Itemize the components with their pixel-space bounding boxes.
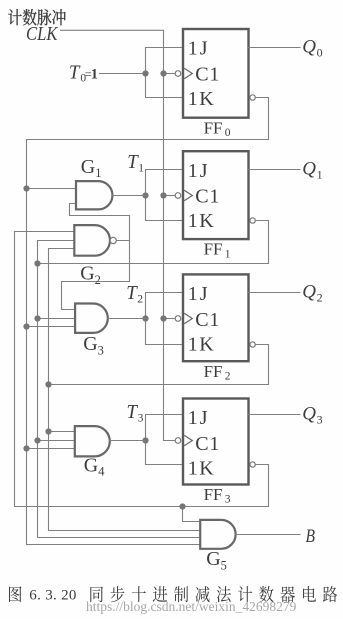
svg-text:0: 0 <box>317 46 323 60</box>
wire G4 bottom input from Q-bar0 bus <box>27 448 75 450</box>
svg-text:3: 3 <box>317 413 323 427</box>
label FF3 <box>204 485 231 506</box>
svg-text:Q: Q <box>302 403 316 424</box>
label FF1 <box>204 240 231 261</box>
svg-text:T: T <box>69 62 81 83</box>
wire J-K tie bracket of FF0 <box>146 48 184 98</box>
AND gate G3 <box>75 304 108 333</box>
junction dot Q-bar3 tap <box>179 503 185 509</box>
svg-text:1K: 1K <box>188 333 215 355</box>
svg-text:5: 5 <box>221 558 227 572</box>
flip-flop FF2 (JK) <box>175 274 248 361</box>
junction dot at FF3 J-K node <box>142 437 148 443</box>
clock bubble at C1 of FF3 <box>175 438 181 444</box>
wire G4 output to T3 node <box>110 440 146 442</box>
wire G3 output to T2 node <box>108 318 146 320</box>
svg-text:G: G <box>80 263 94 285</box>
svg-text:G: G <box>84 454 98 476</box>
wire Q-bar2 feedback: around FF2 to left bus <box>49 345 269 385</box>
flip-flop FF3 (JK) <box>175 399 248 485</box>
node T3 label <box>127 402 144 425</box>
wire G5 output to borrow B <box>236 534 300 536</box>
svg-text:1J: 1J <box>188 407 210 429</box>
flip-flop FF1 (JK) <box>175 151 248 239</box>
svg-text:T: T <box>126 283 138 304</box>
label: counting pulse (Chinese) <box>8 9 66 25</box>
label G5 <box>206 548 227 572</box>
junction dot at FF2 J-K node <box>142 315 148 321</box>
svg-text:3: 3 <box>138 413 144 425</box>
svg-text:3: 3 <box>98 343 104 357</box>
svg-text:0: 0 <box>225 127 231 139</box>
junction dot clock rail at FF2 <box>160 315 166 321</box>
label Q0 <box>302 36 322 59</box>
svg-text:1: 1 <box>138 163 144 175</box>
node CLK label <box>26 23 59 45</box>
clock bubble at C1 of FF1 <box>175 193 181 199</box>
wire Q-bar1 feedback: around FF1 to left bus <box>38 221 269 264</box>
svg-text:G: G <box>206 548 220 570</box>
watermark <box>86 599 297 614</box>
svg-text:CLK: CLK <box>26 23 59 45</box>
inverted output bubble (Q-bar) of FF3 <box>250 462 255 467</box>
wire clock tap to C1 of FF0 <box>164 73 176 75</box>
wire G3 bottom input from Q-bar0 bus <box>27 326 76 328</box>
wire J-K tie bracket of FF1 <box>146 170 184 221</box>
svg-text:4: 4 <box>98 465 105 479</box>
dynamic-input triangle at C1 of FF1 <box>184 190 192 200</box>
svg-text:FF: FF <box>204 240 223 259</box>
junction dot Q-bar0 bus to G4 <box>23 445 29 451</box>
junction dot Q-bar1 bus to G3 <box>34 315 40 321</box>
junction dot clock rail at FF0 <box>160 70 166 76</box>
wire Q3 output <box>249 414 301 416</box>
clock bubble at C1 of FF0 <box>175 71 181 77</box>
inverted output bubble (Q-bar) of FF1 <box>250 218 255 223</box>
dynamic-input triangle at C1 of FF0 <box>184 68 192 78</box>
wire G2 output net: up to G1 lower input and down to G3 upper input <box>62 204 130 310</box>
clock bubble at C1 of FF2 <box>175 316 181 322</box>
svg-text:T: T <box>127 152 139 173</box>
label B (borrow output) <box>306 527 316 547</box>
svg-text:1: 1 <box>225 248 231 260</box>
label Q1 <box>302 158 322 181</box>
svg-text:G: G <box>83 333 97 355</box>
wire G4 top input from Q-bar2 bus <box>49 431 75 433</box>
junction dot at FF1 J-K node <box>142 192 148 198</box>
label G3 <box>83 333 104 357</box>
wire J-K tie bracket of FF3 <box>146 415 184 465</box>
wire Q0 output <box>249 47 301 49</box>
label FF0 <box>204 118 231 139</box>
svg-text:1J: 1J <box>188 160 210 182</box>
wire T0 input to FF0 J-K node <box>100 73 146 75</box>
wire Q-bar3 tap down to G5 top input <box>183 507 201 522</box>
svg-text:1: 1 <box>91 66 98 82</box>
wire J-K tie bracket of FF2 <box>146 293 184 345</box>
wire clock tap to C1 of FF2 <box>164 318 176 320</box>
AND gate G5 <box>200 520 235 549</box>
output bubble of G2 <box>110 237 116 243</box>
wire G1 output to T1 node <box>113 195 146 197</box>
svg-text:Q: Q <box>302 158 316 179</box>
junction dot Q-bar1 bus to G4 <box>34 437 40 443</box>
svg-text:C1: C1 <box>195 63 220 85</box>
NAND gate G2 <box>74 225 116 256</box>
dynamic-input triangle at C1 of FF2 <box>184 313 192 323</box>
svg-text:FF: FF <box>204 118 223 137</box>
junction dot Q-bar2 bus to G4 <box>45 428 51 434</box>
svg-text:1: 1 <box>317 168 323 182</box>
junction dot Q-bar1 wrap joins bus <box>34 260 40 266</box>
node T2 label <box>126 283 143 306</box>
dynamic-input triangle at C1 of FF3 <box>184 435 192 445</box>
svg-text:Q: Q <box>302 36 316 57</box>
junction dot Q-bar0 bus to G1 <box>23 185 29 191</box>
AND gate G4 <box>75 426 110 456</box>
svg-text:FF: FF <box>204 485 223 504</box>
label T0=1 <box>69 62 98 84</box>
wire G3 middle input from Q-bar1 bus <box>38 318 76 320</box>
svg-text:2: 2 <box>225 370 231 382</box>
caption: figure number <box>9 586 77 603</box>
wire G1 top input from Q-bar0 bus <box>27 188 77 190</box>
svg-text:C1: C1 <box>195 433 220 455</box>
AND gate G1 <box>76 181 112 209</box>
svg-text:6. 3. 20: 6. 3. 20 <box>29 588 76 604</box>
label Q3 <box>302 403 322 426</box>
junction dot at FF0 J-K node <box>142 70 148 76</box>
wire Q2 output <box>249 292 301 294</box>
label Q2 <box>302 281 322 304</box>
wire Q-bar2 bus: to G2 input and down to G5 <box>49 249 201 531</box>
inverted output bubble (Q-bar) of FF0 <box>250 95 255 100</box>
label G1 <box>81 156 102 180</box>
svg-text:1J: 1J <box>188 38 210 60</box>
wire CLK: from CLK label right, down the clock rail to FF3 C1 <box>61 30 176 440</box>
svg-text:1K: 1K <box>188 458 215 480</box>
inverted output bubble (Q-bar) of FF2 <box>250 342 255 347</box>
label G4 <box>84 454 105 478</box>
caption: title (synchronous decade down counter circuit) <box>90 586 337 602</box>
svg-text:1: 1 <box>95 166 101 180</box>
svg-text:T: T <box>127 402 139 423</box>
svg-text:1K: 1K <box>188 88 215 110</box>
label FF2 <box>204 362 231 383</box>
svg-text:FF: FF <box>204 362 223 381</box>
svg-text:2: 2 <box>137 294 143 306</box>
wire Q-bar0 feedback: around FF0 down the left bus to G5 <box>27 98 269 545</box>
wire Q-bar1 bus: to G2 input and down to G5 <box>38 241 201 538</box>
wire Q1 output <box>249 169 301 171</box>
svg-text:C1: C1 <box>195 186 220 208</box>
svg-text:C1: C1 <box>195 309 220 331</box>
svg-text:Q: Q <box>302 281 316 302</box>
svg-text:B: B <box>306 527 316 547</box>
svg-text:2: 2 <box>95 273 101 287</box>
svg-text:G: G <box>81 156 95 178</box>
svg-text:1J: 1J <box>188 283 210 305</box>
wire G4 middle input from Q-bar1 bus <box>38 440 75 442</box>
wire Q-bar3 feedback: around FF3, across bottom, up left edge to G2 input <box>15 232 269 507</box>
svg-text:2: 2 <box>317 291 323 305</box>
svg-text:3: 3 <box>225 494 231 506</box>
junction dot Q-bar2 wrap joins bus <box>45 381 51 387</box>
junction dot clock rail at FF1 <box>160 192 166 198</box>
junction dot Q-bar0 bus to G3 <box>23 323 29 329</box>
flip-flop FF0 (JK) <box>175 29 248 118</box>
node T1 label <box>127 152 144 175</box>
wire clock tap to C1 of FF1 <box>164 195 176 197</box>
svg-text:1K: 1K <box>188 210 215 232</box>
label G2 <box>80 263 101 287</box>
svg-text:https.//blog.csdn.net/weixin_4: https.//blog.csdn.net/weixin_42698279 <box>86 599 297 614</box>
